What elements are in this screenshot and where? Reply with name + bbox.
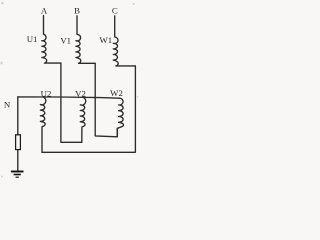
svg-text:W2: W2 bbox=[110, 88, 123, 98]
svg-text:B: B bbox=[74, 6, 80, 16]
svg-text:U1: U1 bbox=[27, 34, 38, 44]
svg-text:U2: U2 bbox=[41, 88, 52, 98]
svg-text:A: A bbox=[41, 6, 48, 16]
svg-text:C: C bbox=[112, 6, 118, 16]
svg-text:V1: V1 bbox=[60, 36, 71, 46]
svg-text:W1: W1 bbox=[99, 35, 112, 45]
svg-text:N: N bbox=[4, 100, 11, 110]
svg-text:V2: V2 bbox=[75, 89, 86, 99]
